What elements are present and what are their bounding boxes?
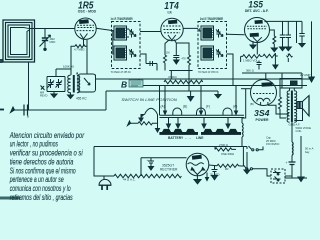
svg-text:retiramos del sitio , gracias: retiramos del sitio , gracias [10, 193, 73, 202]
svg-text:B: B [121, 80, 127, 90]
svg-text:OSC - MOD: OSC - MOD [78, 9, 97, 13]
svg-text:1M: 1M [166, 52, 169, 55]
svg-text:Si nos confirma que el mismo: Si nos confirma que el mismo [10, 166, 76, 175]
svg-text:REYD: REYD [40, 94, 48, 98]
svg-text:20 MFD: 20 MFD [210, 172, 220, 176]
svg-text:(A): (A) [161, 105, 165, 109]
svg-text:B: B [27, 115, 29, 119]
svg-text:100K AV: 100K AV [63, 65, 74, 69]
svg-text:(B): (B) [183, 105, 187, 109]
svg-text:(F): (F) [206, 105, 210, 109]
svg-text:1 MEG VOL: 1 MEG VOL [243, 59, 259, 63]
svg-text:un lector , no pudimos: un lector , no pudimos [10, 140, 58, 149]
svg-text:MFD: MFD [50, 40, 56, 44]
svg-text:LINE: LINE [196, 136, 204, 140]
svg-text:2nd I.F. TRANSFORMER: 2nd I.F. TRANSFORMER [200, 17, 223, 21]
svg-text:POWER: POWER [256, 118, 269, 122]
svg-text:GND: GND [289, 122, 297, 126]
svg-text:TO PEAK AT 455 KC: TO PEAK AT 455 KC [198, 70, 219, 74]
svg-text:comunica con nosotros y lo: comunica con nosotros y lo [10, 184, 71, 193]
svg-text:verificar su procedencia o si: verificar su procedencia o si [10, 149, 83, 158]
svg-text:50 m A: 50 m A [305, 147, 314, 151]
svg-text:BATTERY: BATTERY [168, 136, 184, 140]
svg-text:47K: 47K [182, 58, 187, 61]
svg-text:+: + [286, 161, 288, 165]
svg-text:150 WVDC: 150 WVDC [266, 142, 280, 146]
svg-text:(A): (A) [233, 105, 237, 109]
svg-text:36K Ω: 36K Ω [246, 69, 254, 73]
svg-text:465 KC: 465 KC [76, 97, 87, 101]
svg-text:1st I.F. TRANSFORMER: 1st I.F. TRANSFORMER [111, 17, 133, 21]
svg-text:#R: #R [225, 167, 228, 171]
svg-text:Atencion circuito enviado por: Atencion circuito enviado por [9, 131, 85, 140]
svg-text:2700 Ω: 2700 Ω [219, 143, 228, 147]
svg-text:RECTIFIER: RECTIFIER [160, 168, 178, 172]
svg-text:DET. AVC - A.F.: DET. AVC - A.F. [245, 9, 269, 13]
svg-text:4.7 MEG: 4.7 MEG [74, 48, 85, 52]
svg-text:COIL: COIL [296, 129, 303, 133]
svg-text:2V AMP: 2V AMP [300, 73, 311, 77]
svg-text:ONE 600Ω: ONE 600Ω [221, 152, 234, 156]
svg-text:SWITCH IN LINE POSITION: SWITCH IN LINE POSITION [121, 97, 177, 102]
svg-text:I.F.: I.F. [168, 11, 173, 15]
svg-text:(B): (B) [250, 102, 254, 106]
svg-text:pertenece a un autor se: pertenece a un autor se [9, 175, 64, 184]
svg-text:bay: bay [305, 150, 310, 154]
svg-text:44 Ω A.C.: 44 Ω A.C. [123, 178, 136, 182]
svg-text:tiene derechos de autoria: tiene derechos de autoria [10, 157, 74, 166]
svg-text:470KΩ: 470KΩ [168, 75, 177, 79]
svg-text:+: + [147, 158, 149, 162]
svg-text:TO PEAK AT 455 KC: TO PEAK AT 455 KC [111, 70, 132, 74]
svg-text:3S4: 3S4 [254, 108, 270, 118]
svg-text:←→: ←→ [185, 136, 192, 140]
